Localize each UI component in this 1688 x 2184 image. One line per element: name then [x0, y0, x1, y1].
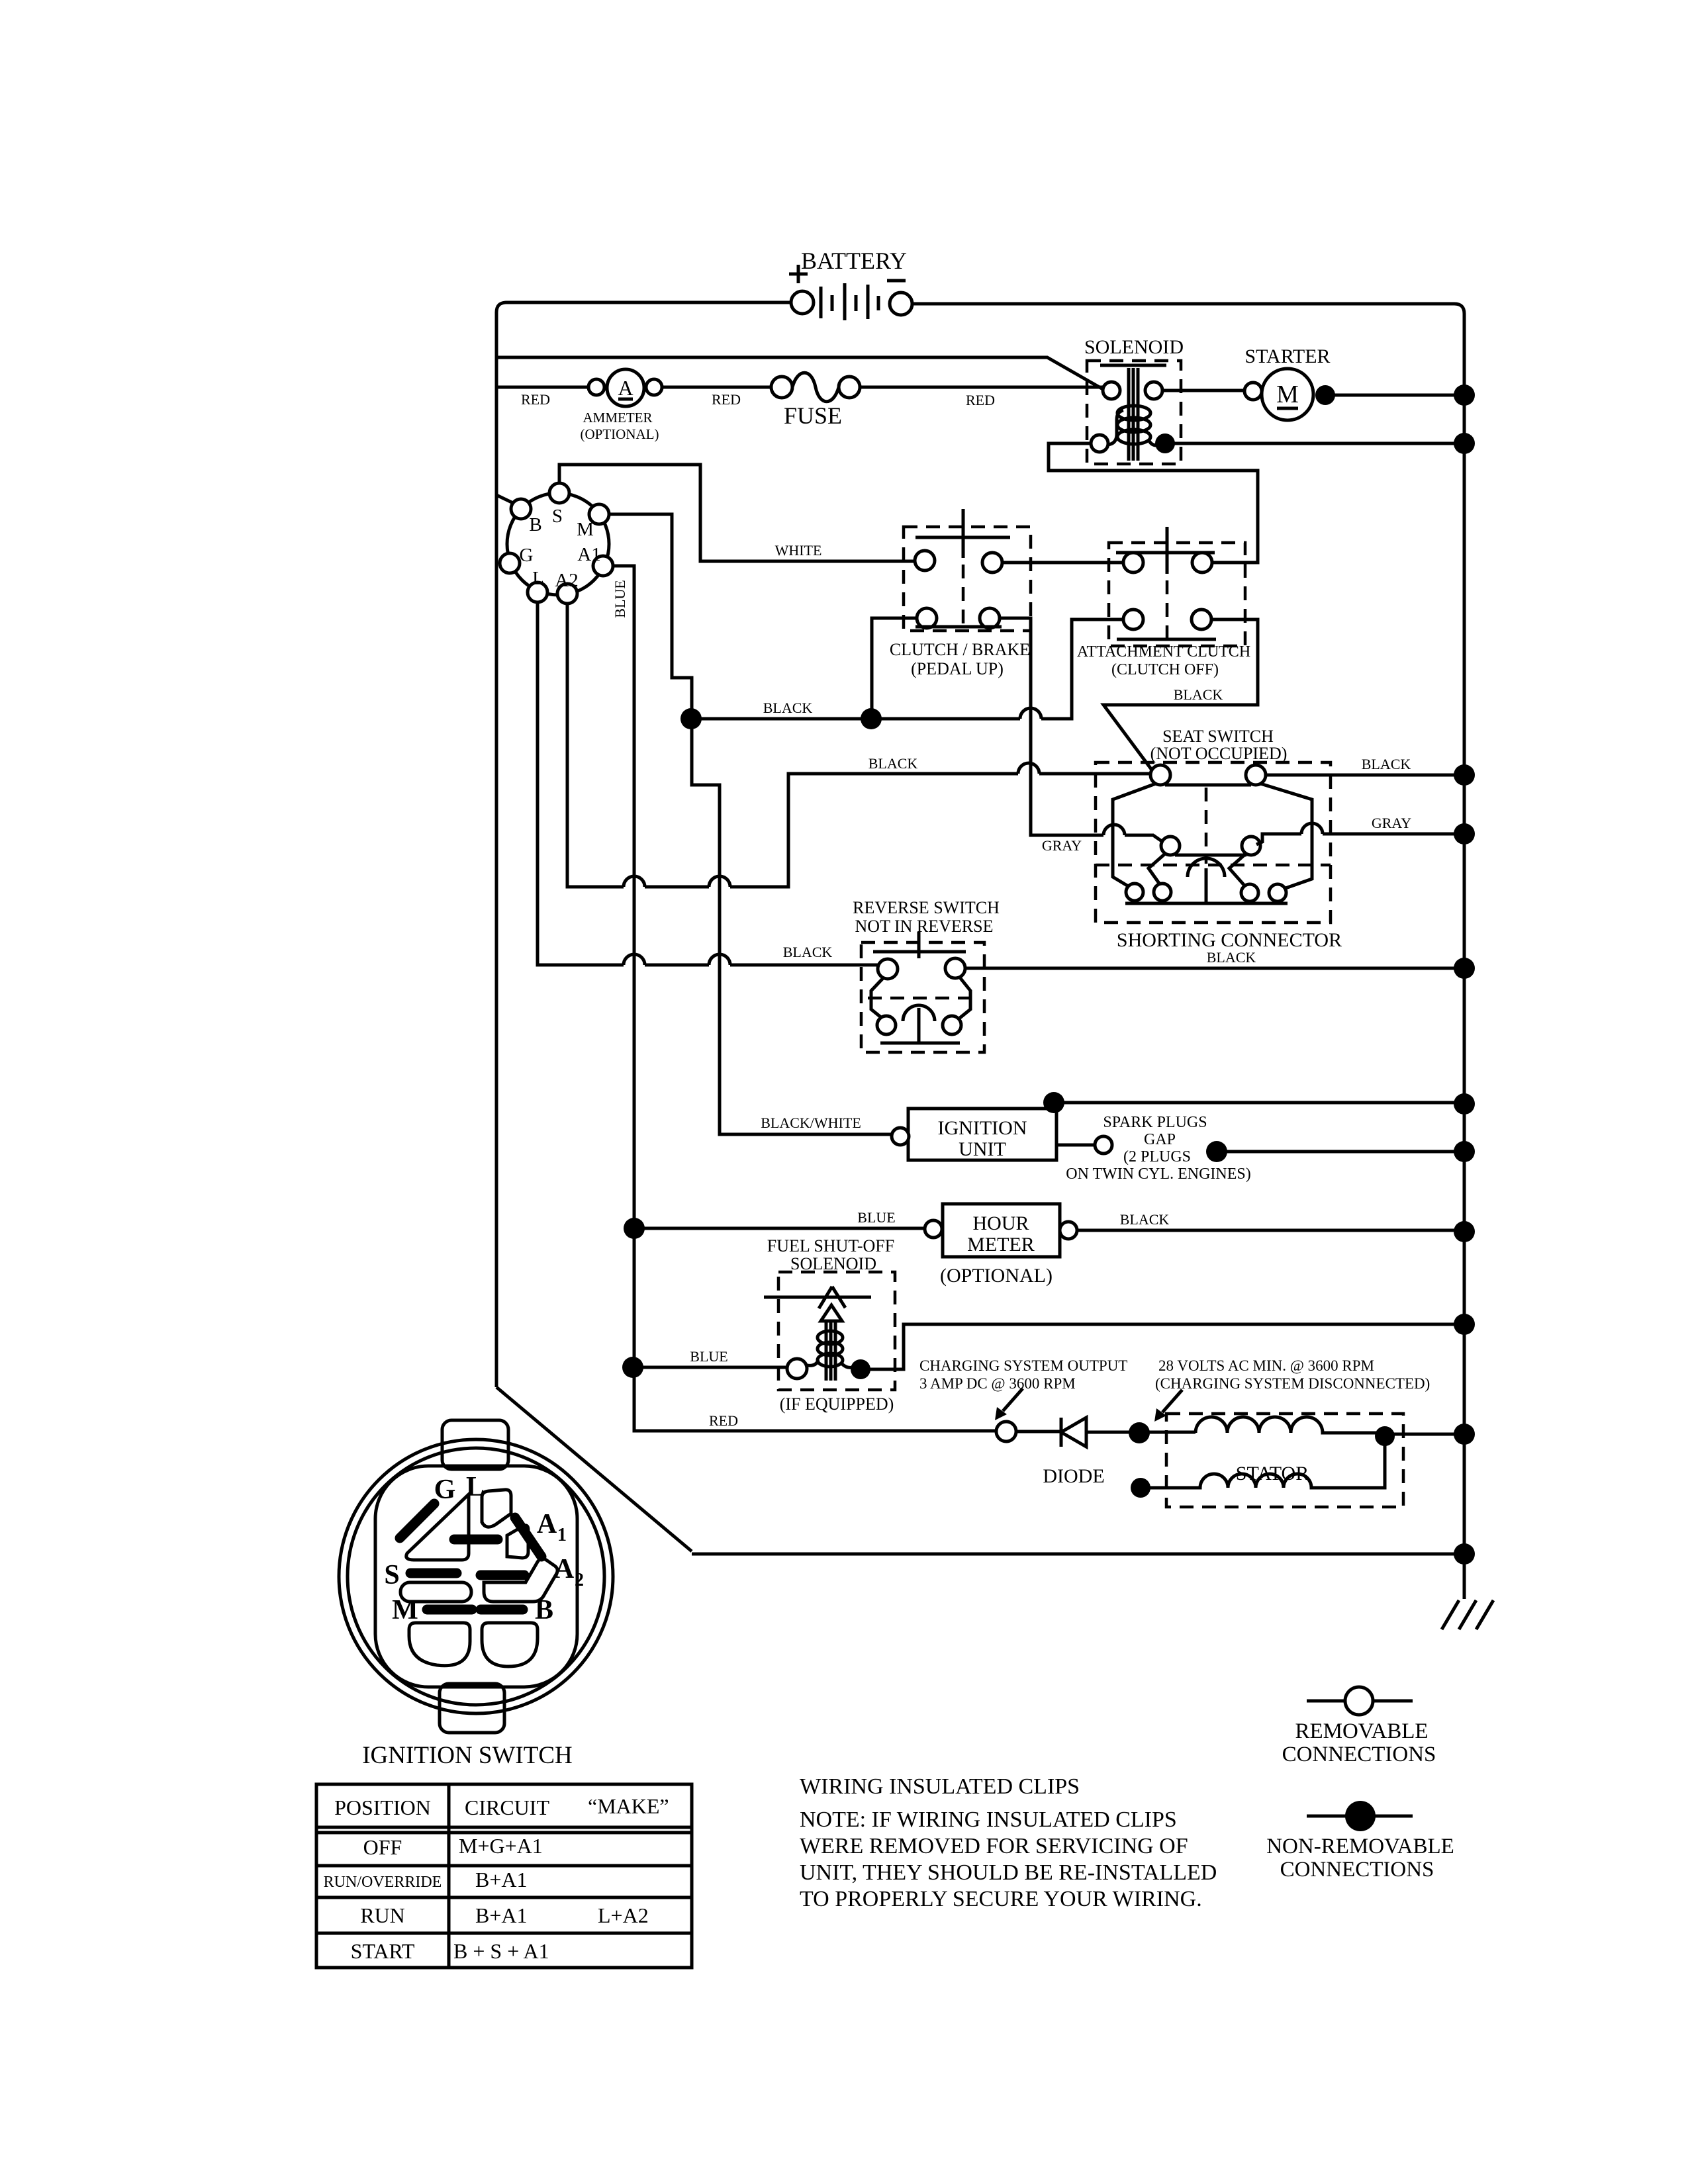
wire: seat switch top-right to right bus (BLACK)	[1266, 774, 1464, 777]
wire: fuel solenoid to right bus	[861, 1324, 1464, 1369]
junction: fuel solenoid wire on right bus	[1454, 1314, 1475, 1335]
wire: hour meter to right bus (BLACK)	[1077, 1229, 1464, 1232]
wire: solenoid lower pin to attachment clutch top-right pin	[1049, 443, 1258, 563]
fuel shut-off solenoid (if equipped)	[764, 1236, 895, 1414]
wire: interlock BLACK between junctions	[691, 717, 871, 721]
junction: seat black on right bus	[1454, 764, 1475, 786]
svg-text:B: B	[535, 1595, 553, 1625]
svg-text:NON-REMOVABLE: NON-REMOVABLE	[1266, 1835, 1454, 1858]
wire: pin B to left bus	[496, 495, 513, 503]
svg-text:(CLUTCH OFF): (CLUTCH OFF)	[1111, 661, 1219, 678]
svg-text:SPARK PLUGS: SPARK PLUGS	[1103, 1114, 1207, 1131]
hop: gray seat wire over seat box edge	[1103, 825, 1125, 835]
svg-text:(OPTIONAL): (OPTIONAL)	[940, 1265, 1053, 1287]
svg-text:G: G	[434, 1475, 456, 1505]
svg-text:(IF EQUIPPED): (IF EQUIPPED)	[780, 1394, 894, 1414]
svg-text:RUN: RUN	[360, 1903, 405, 1927]
svg-text:SHORTING CONNECTOR: SHORTING CONNECTOR	[1117, 929, 1342, 951]
svg-text:BLACK/WHITE: BLACK/WHITE	[761, 1115, 861, 1131]
junction: spark plug gap wire	[1206, 1141, 1227, 1162]
note: wiring insulated clips	[800, 1774, 1217, 1911]
svg-text:A1: A1	[577, 544, 600, 565]
seat switch (not occupied)	[1096, 727, 1342, 951]
wire: starter to right bus	[1325, 394, 1464, 397]
svg-text:B: B	[529, 514, 541, 535]
svg-text:STARTER: STARTER	[1244, 345, 1330, 367]
legend: non-removable connection symbol	[1266, 1801, 1454, 1882]
junction: kill wire on right bus	[1454, 1093, 1475, 1115]
charging output terminal	[996, 1422, 1016, 1441]
svg-text:3 AMP DC @ 3600 RPM: 3 AMP DC @ 3600 RPM	[919, 1375, 1076, 1392]
attachment clutch switch (clutch off)	[1077, 527, 1250, 678]
svg-text:REVERSE SWITCH: REVERSE SWITCH	[853, 898, 1000, 917]
junction: hour meter black on right bus	[1454, 1221, 1475, 1242]
solenoid	[1084, 336, 1184, 464]
svg-text:RUN/OVERRIDE: RUN/OVERRIDE	[324, 1874, 442, 1891]
junction: M wire and black interlock net	[680, 708, 702, 729]
hour meter (optional)	[925, 1204, 1077, 1287]
wire: pin L down to reverse switch (BLACK)	[538, 602, 879, 965]
wire: clutch/brake lower-right pin down to seat switch mid-left pin (GRAY)	[1000, 618, 1162, 841]
svg-text:NOT IN REVERSE: NOT IN REVERSE	[855, 917, 994, 936]
fuse F1	[771, 373, 860, 429]
svg-text:BLACK: BLACK	[1174, 686, 1223, 703]
label: spark plugs	[1066, 1114, 1251, 1183]
hop: A2 wire over M vertical	[709, 876, 730, 887]
svg-text:(NOT OCCUPIED): (NOT OCCUPIED)	[1150, 744, 1288, 763]
wire: spark plug wire to right bus	[1217, 1150, 1464, 1154]
svg-text:POSITION: POSITION	[334, 1796, 431, 1819]
svg-text:“MAKE”: “MAKE”	[588, 1794, 669, 1818]
wire: ammeter to fuse RED	[662, 386, 771, 389]
hop: interlock wire over clutch/brake return	[1020, 708, 1041, 719]
ignition unit	[892, 1109, 1056, 1160]
svg-text:REMOVABLE: REMOVABLE	[1295, 1719, 1428, 1743]
svg-text:SOLENOID: SOLENOID	[1084, 336, 1184, 358]
svg-text:RED: RED	[521, 391, 550, 408]
wire: BLUE to hour meter	[634, 1227, 924, 1230]
wire: fuse to solenoid RED	[860, 386, 1103, 389]
svg-text:A: A	[537, 1509, 557, 1539]
svg-text:A: A	[618, 376, 633, 400]
spark plug terminal	[1095, 1136, 1112, 1154]
wire: pin M down to ignition unit (BLACK/WHITE)	[609, 514, 892, 1134]
svg-text:NOTE: IF WIRING INSULATED CLI: NOTE: IF WIRING INSULATED CLIPS	[800, 1807, 1177, 1832]
svg-text:FUSE: FUSE	[784, 402, 842, 429]
svg-text:CONNECTIONS: CONNECTIONS	[1280, 1858, 1434, 1882]
svg-text:(2 PLUGS: (2 PLUGS	[1123, 1148, 1191, 1165]
junction: gray on right bus	[1454, 823, 1475, 844]
wire: interlock junction to attachment clutch lower-left pin	[871, 619, 1123, 719]
svg-text:G: G	[520, 545, 534, 566]
svg-text:IGNITION: IGNITION	[938, 1117, 1027, 1139]
svg-text:2: 2	[575, 1570, 584, 1590]
wire: solenoid output to starter	[1162, 389, 1244, 392]
stator	[1131, 1414, 1403, 1507]
wire: WHITE between clutch/brake and attachment clutch	[1002, 561, 1123, 565]
svg-text:BLUE: BLUE	[690, 1348, 727, 1365]
wire: bottom ground rail	[692, 1553, 1464, 1556]
svg-text:WHITE: WHITE	[775, 542, 822, 559]
svg-text:FUEL SHUT-OFF: FUEL SHUT-OFF	[767, 1236, 894, 1255]
wire: battery negative to right bus, right bus vertical	[912, 304, 1464, 1599]
svg-text:CHARGING SYSTEM OUTPUT: CHARGING SYSTEM OUTPUT	[919, 1357, 1127, 1374]
ignition switch plug connector (top)	[500, 483, 613, 604]
svg-text:CIRCUIT: CIRCUIT	[465, 1796, 549, 1819]
junction: reverse black on right bus	[1454, 958, 1475, 979]
svg-text:METER: METER	[967, 1234, 1035, 1255]
svg-text:UNIT, THEY SHOULD BE RE-INSTAL: UNIT, THEY SHOULD BE RE-INSTALLED	[800, 1860, 1217, 1885]
svg-text:GRAY: GRAY	[1372, 815, 1411, 831]
wire: diode to stator	[1086, 1431, 1196, 1434]
svg-text:WIRING INSULATED CLIPS: WIRING INSULATED CLIPS	[800, 1774, 1080, 1799]
svg-text:BLUE: BLUE	[612, 580, 628, 617]
label: charging system output	[919, 1357, 1127, 1420]
svg-text:B + S + A1: B + S + A1	[453, 1939, 549, 1963]
svg-text:ON TWIN CYL. ENGINES): ON TWIN CYL. ENGINES)	[1066, 1165, 1251, 1183]
junction: blue tap for hour meter	[624, 1218, 645, 1239]
svg-text:GAP: GAP	[1144, 1131, 1176, 1148]
svg-text:L+A2: L+A2	[598, 1903, 649, 1927]
junction: stator top lead	[1129, 1422, 1150, 1443]
svg-text:M: M	[577, 519, 594, 540]
svg-text:OFF: OFF	[363, 1835, 402, 1859]
wire: ignition unit output to spark plug terminal	[1056, 1144, 1095, 1147]
wire: battery positive to left bus, left bus vertical	[496, 302, 791, 1387]
svg-text:S: S	[552, 506, 563, 527]
junction: spark wire on right bus	[1454, 1141, 1475, 1162]
hop: L wire over M vertical	[709, 954, 730, 965]
svg-text:CLUTCH / BRAKE: CLUTCH / BRAKE	[890, 640, 1030, 659]
svg-text:SOLENOID: SOLENOID	[790, 1254, 876, 1273]
ammeter A1 (optional)	[581, 369, 662, 442]
svg-text:DIODE: DIODE	[1043, 1465, 1104, 1487]
svg-text:HOUR: HOUR	[972, 1212, 1029, 1234]
junction: ignition unit kill terminal	[1043, 1092, 1064, 1113]
junction: coil return on right bus	[1454, 433, 1475, 454]
hop: L wire over BLUE vertical	[624, 954, 645, 965]
svg-text:BLACK: BLACK	[868, 755, 918, 772]
wire: left bus second feed to solenoid	[496, 357, 1103, 389]
svg-text:B+A1: B+A1	[475, 1868, 528, 1891]
ground	[1442, 1600, 1493, 1629]
svg-text:28 VOLTS AC MIN. @ 3600 RPM: 28 VOLTS AC MIN. @ 3600 RPM	[1158, 1357, 1374, 1374]
wire: clutch/brake lower-left pin to interlock junction	[872, 618, 917, 719]
svg-text:IGNITION SWITCH: IGNITION SWITCH	[362, 1742, 573, 1769]
svg-text:GRAY: GRAY	[1042, 837, 1082, 854]
svg-text:START: START	[351, 1939, 415, 1963]
svg-text:M+G+A1: M+G+A1	[459, 1834, 543, 1858]
ignition switch connector face (bottom graphic)	[339, 1420, 613, 1733]
wire: solenoid coil return to right bus	[1165, 442, 1464, 445]
wire: left bus diagonal to bottom rail	[496, 1387, 692, 1551]
svg-text:CONNECTIONS: CONNECTIONS	[1282, 1743, 1436, 1766]
svg-text:B+A1: B+A1	[475, 1903, 528, 1927]
svg-text:ATTACHMENT CLUTCH: ATTACHMENT CLUTCH	[1077, 643, 1250, 660]
svg-text:1: 1	[557, 1525, 567, 1545]
svg-text:A: A	[554, 1554, 575, 1584]
svg-text:(CHARGING SYSTEM DISCONNECTED): (CHARGING SYSTEM DISCONNECTED)	[1155, 1375, 1430, 1392]
wire: BLUE to fuel solenoid	[633, 1366, 787, 1369]
svg-text:M: M	[392, 1595, 418, 1625]
svg-text:TO PROPERLY SECURE YOUR WIRING: TO PROPERLY SECURE YOUR WIRING.	[800, 1887, 1202, 1911]
svg-text:BATTERY: BATTERY	[801, 248, 907, 274]
hop: gray wire over seat internal vertical	[1301, 823, 1323, 834]
wire: attachment clutch lower-right pin to seat switch top-left pin (BLACK)	[1103, 619, 1258, 772]
svg-text:S: S	[384, 1560, 399, 1590]
wire: terminal to diode	[1016, 1430, 1061, 1433]
svg-text:UNIT: UNIT	[959, 1138, 1006, 1160]
reverse switch (not in reverse)	[853, 898, 1000, 1052]
junction: bottom rail to right bus	[1454, 1543, 1475, 1565]
junction: stator on right bus	[1454, 1424, 1475, 1445]
svg-text:BLUE: BLUE	[857, 1209, 895, 1226]
svg-text:SEAT SWITCH: SEAT SWITCH	[1162, 727, 1274, 746]
wire: pin A1 down (BLUE vertical)	[613, 566, 996, 1431]
svg-text:L: L	[532, 568, 544, 589]
wire: reverse switch right pin to right bus (BLACK)	[965, 967, 1464, 970]
label: 28 volts AC	[1154, 1357, 1430, 1422]
clutch/brake switch (pedal up)	[890, 509, 1031, 678]
battery B1	[789, 248, 912, 320]
starter motor M	[1244, 345, 1335, 420]
svg-text:BLACK: BLACK	[1362, 756, 1411, 772]
wire: ignition unit kill to right bus	[1054, 1101, 1464, 1105]
hop: A2 wire over clutch/brake return vertical	[1018, 763, 1039, 774]
diode D1	[1043, 1418, 1104, 1487]
svg-text:BLACK: BLACK	[1120, 1211, 1170, 1228]
junction: blue tap for fuel solenoid	[622, 1357, 643, 1378]
svg-text:BLACK: BLACK	[763, 700, 813, 716]
svg-text:(PEDAL UP): (PEDAL UP)	[911, 659, 1004, 678]
svg-text:RED: RED	[712, 391, 741, 408]
svg-text:AMMETER: AMMETER	[583, 410, 653, 426]
wire: pin A2 down and over to seat switch (GRAY then BLACK)	[567, 604, 1152, 887]
junction: interlock net at clutch/brake	[861, 708, 882, 729]
svg-text:RED: RED	[709, 1412, 738, 1429]
junction: starter wire on right bus	[1454, 385, 1475, 406]
wire: RED feed from left bus through ammeter and fuse	[496, 386, 588, 389]
legend: removable connection symbol	[1282, 1687, 1436, 1766]
svg-text:BLACK: BLACK	[1207, 949, 1256, 966]
svg-text:M: M	[1276, 381, 1299, 408]
svg-text:BLACK: BLACK	[783, 944, 833, 960]
svg-text:L: L	[466, 1472, 485, 1502]
wire: stator to right bus	[1385, 1433, 1464, 1436]
svg-text:WERE REMOVED FOR SERVICING OF: WERE REMOVED FOR SERVICING OF	[800, 1834, 1188, 1858]
svg-text:(OPTIONAL): (OPTIONAL)	[581, 426, 659, 442]
wire: right bus to seat switch mid-right pin (GRAY)	[1256, 834, 1464, 844]
svg-text:A2: A2	[555, 570, 578, 591]
table: ignition switch positions	[316, 1784, 692, 1968]
wire: pin S up and over to clutch/brake (WHITE)	[559, 465, 915, 561]
svg-text:RED: RED	[966, 392, 995, 408]
hop: A2 wire over BLUE vertical	[624, 876, 645, 887]
